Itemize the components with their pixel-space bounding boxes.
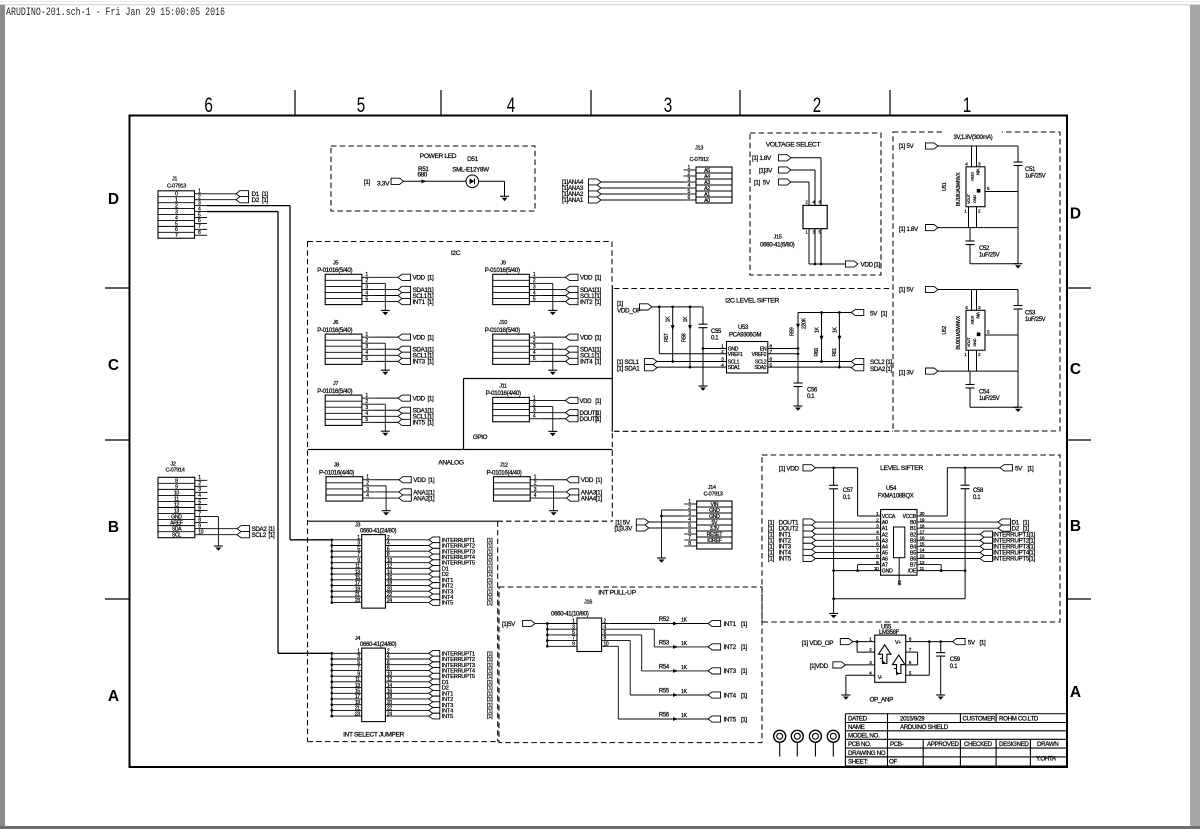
svg-text:BU30UA3WNVX: BU30UA3WNVX [956, 315, 962, 349]
svg-text:Y.OHTA: Y.OHTA [1036, 756, 1057, 763]
svg-text:J1: J1 [172, 177, 177, 183]
svg-text:VDD: VDD [413, 395, 426, 402]
svg-text:DRAWING NO: DRAWING NO [848, 750, 886, 757]
svg-text:VIN: VIN [976, 169, 981, 175]
svg-text:GND: GND [972, 195, 977, 203]
svg-text:A: A [1070, 684, 1081, 701]
svg-text:A: A [108, 688, 119, 705]
svg-text:VDD: VDD [861, 262, 874, 269]
svg-text:C-07914: C-07914 [165, 468, 184, 474]
svg-text:C-07912: C-07912 [689, 157, 708, 163]
svg-text:0.1: 0.1 [843, 495, 851, 501]
svg-text:[1]: [1] [741, 692, 748, 699]
svg-text:ROHM CO.LTD: ROHM CO.LTD [999, 716, 1039, 723]
svg-text:VOUT: VOUT [966, 337, 971, 348]
svg-text:SDA2: SDA2 [754, 365, 766, 371]
svg-text:[1]: [1] [487, 714, 493, 720]
svg-text:J7: J7 [333, 381, 338, 387]
svg-text:[1]: [1] [428, 495, 435, 502]
svg-text:STBY: STBY [970, 316, 975, 326]
svg-text:0660-41(24/80): 0660-41(24/80) [360, 642, 396, 648]
svg-text:ARUDINO-201.sch-1 - Fri Jan 29: ARUDINO-201.sch-1 - Fri Jan 29 15:00:05 … [6, 7, 225, 19]
svg-text:R61: R61 [832, 348, 838, 357]
svg-text:[1]: [1] [428, 395, 435, 402]
svg-text:INT5: INT5 [442, 601, 453, 607]
svg-text:1K: 1K [681, 618, 688, 624]
svg-text:23: 23 [355, 711, 360, 717]
svg-text:VDD: VDD [413, 334, 426, 341]
svg-text:5V: 5V [870, 310, 878, 317]
svg-text:24: 24 [387, 598, 392, 604]
svg-text:[1]: [1] [487, 601, 493, 607]
svg-text:0660-41(24/80): 0660-41(24/80) [360, 528, 396, 534]
svg-text:[1]3.3V: [1]3.3V [615, 525, 634, 532]
svg-text:VDD: VDD [413, 477, 426, 484]
svg-text:[1] 3V: [1] 3V [899, 370, 915, 377]
svg-text:SDA2: SDA2 [870, 366, 886, 373]
svg-text:[1]: [1] [428, 477, 435, 484]
svg-text:1K: 1K [832, 326, 838, 333]
svg-text:C-07913: C-07913 [167, 184, 186, 190]
svg-text:[1]: [1] [262, 197, 269, 204]
svg-text:PCB NO.: PCB NO. [848, 741, 872, 748]
svg-text:1uF/25V: 1uF/25V [1025, 317, 1046, 323]
svg-text:C51: C51 [1025, 167, 1036, 173]
svg-text:7: 7 [175, 233, 178, 239]
svg-text:SDA1: SDA1 [728, 365, 740, 371]
svg-text:U53: U53 [738, 325, 749, 331]
svg-text:VIN: VIN [976, 312, 981, 318]
svg-text:BU18UA3WNVX: BU18UA3WNVX [956, 172, 962, 206]
svg-text:APPROVED: APPROVED [927, 741, 959, 748]
svg-text:R57: R57 [664, 333, 670, 342]
svg-text:[1]: [1] [741, 668, 748, 675]
svg-text:ANA4: ANA4 [581, 495, 597, 502]
svg-text:1K: 1K [681, 665, 688, 671]
svg-text:SCL2: SCL2 [252, 532, 267, 539]
svg-text:I2C LEVEL SIFTER: I2C LEVEL SIFTER [725, 298, 779, 305]
svg-text:DATED: DATED [848, 716, 868, 723]
svg-text:DRAWN: DRAWN [1037, 741, 1058, 748]
svg-text:INT3: INT3 [724, 668, 737, 675]
svg-text:DESIGNED: DESIGNED [999, 741, 1029, 748]
svg-text:[1]3V: [1]3V [759, 167, 773, 174]
svg-text:21: 21 [897, 580, 903, 585]
svg-text:C: C [1070, 361, 1081, 378]
svg-text:D51: D51 [467, 156, 478, 163]
svg-text:2: 2 [813, 93, 822, 117]
svg-text:1: 1 [963, 93, 972, 117]
svg-text:J15: J15 [774, 234, 782, 240]
svg-text:VDD: VDD [580, 334, 593, 341]
svg-text:VDD: VDD [413, 275, 426, 282]
svg-text:SHEET:: SHEET: [848, 759, 868, 766]
svg-text:INT4: INT4 [724, 692, 737, 699]
svg-text:I2C: I2C [451, 250, 461, 257]
svg-text:VREF1: VREF1 [728, 352, 743, 358]
svg-text:5V: 5V [1015, 466, 1023, 473]
svg-text:[1]: [1] [595, 411, 601, 417]
svg-text:5V: 5V [968, 640, 976, 647]
svg-text:[1] SDA1: [1] SDA1 [617, 366, 640, 373]
svg-text:B: B [108, 519, 119, 536]
svg-text:1uF/25V: 1uF/25V [979, 396, 1000, 402]
svg-text:A0: A0 [704, 198, 710, 204]
svg-text:[1] 1.8V: [1] 1.8V [899, 226, 919, 233]
svg-text:[1]: [1] [596, 495, 603, 502]
svg-text:MODEL NO.: MODEL NO. [848, 732, 880, 739]
svg-text:C57: C57 [843, 488, 854, 494]
svg-text:INT2: INT2 [724, 644, 737, 651]
svg-text:0.1: 0.1 [973, 495, 981, 501]
svg-text:4: 4 [507, 93, 516, 117]
svg-text:R54: R54 [659, 665, 670, 671]
svg-text:/OE: /OE [908, 569, 917, 575]
svg-text:C: C [108, 357, 119, 374]
svg-text:VREF2: VREF2 [752, 352, 767, 358]
svg-text:[1]5V: [1]5V [502, 621, 516, 628]
svg-text:IOREF: IOREF [707, 538, 721, 544]
svg-text:FXMA108BQX: FXMA108BQX [878, 494, 914, 500]
svg-text:R56: R56 [659, 713, 670, 719]
svg-text:VDD: VDD [581, 477, 594, 484]
svg-text:C53: C53 [1025, 311, 1036, 317]
svg-text:23: 23 [355, 598, 360, 604]
svg-text:INT1: INT1 [413, 299, 426, 306]
svg-text:GND: GND [882, 569, 893, 575]
svg-text:[1]ANA1: [1]ANA1 [562, 197, 584, 204]
svg-text:SML-E12Y8W: SML-E12Y8W [452, 167, 489, 174]
svg-text:R55: R55 [659, 689, 670, 695]
svg-text:R60: R60 [814, 348, 820, 357]
svg-text:[1]: [1] [595, 334, 602, 341]
svg-text:R58: R58 [682, 333, 688, 342]
svg-text:1uF/25V: 1uF/25V [1025, 174, 1046, 180]
svg-text:VDD_OP: VDD_OP [617, 308, 641, 315]
svg-text:0.1: 0.1 [950, 664, 958, 670]
svg-text:R52: R52 [659, 617, 670, 623]
svg-text:220K: 220K [802, 317, 808, 329]
svg-text:C52: C52 [979, 246, 990, 252]
svg-text:10: 10 [604, 641, 609, 647]
svg-text:J5: J5 [333, 260, 338, 266]
svg-text:INT4: INT4 [580, 359, 593, 366]
svg-text:INTERRUPT5: INTERRUPT5 [993, 556, 1030, 563]
svg-text:VOLTAGE SELECT: VOLTAGE SELECT [766, 142, 821, 149]
svg-text:C54: C54 [979, 390, 990, 396]
svg-text:STBY: STBY [970, 172, 975, 182]
svg-text:V+: V+ [895, 640, 901, 646]
svg-text:U54: U54 [886, 486, 897, 492]
svg-text:P-01016(5/40): P-01016(5/40) [317, 388, 352, 395]
svg-text:[1]: [1] [269, 532, 276, 539]
svg-text:INT PULL-UP: INT PULL-UP [598, 590, 636, 597]
svg-text:1K: 1K [683, 316, 689, 323]
svg-text:3.3V: 3.3V [377, 181, 390, 188]
svg-text:C55: C55 [711, 329, 722, 335]
svg-text:1K: 1K [666, 316, 672, 323]
svg-text:INT5: INT5 [779, 556, 792, 563]
svg-text:P-01016(4/40): P-01016(4/40) [486, 390, 521, 397]
svg-text:VDD: VDD [580, 275, 593, 282]
svg-text:[1]: [1] [595, 299, 602, 306]
svg-text:1K: 1K [681, 641, 688, 647]
svg-text:[1]: [1] [617, 301, 624, 308]
svg-text:INT5: INT5 [442, 714, 453, 720]
svg-text:0660-41(6/80): 0660-41(6/80) [760, 241, 795, 248]
svg-text:[1] 5V: [1] 5V [899, 143, 915, 150]
svg-text:J9: J9 [500, 260, 505, 266]
svg-text:2015/9/29: 2015/9/29 [900, 716, 925, 723]
svg-text:INT3: INT3 [413, 359, 426, 366]
svg-text:J12: J12 [500, 463, 508, 469]
svg-text:D: D [108, 191, 119, 208]
svg-text:J13: J13 [695, 146, 703, 152]
svg-text:J14: J14 [708, 485, 716, 491]
svg-text:CUSTOMER: CUSTOMER [963, 716, 996, 723]
svg-text:POWER LED: POWER LED [420, 153, 457, 160]
svg-text:[1]: [1] [980, 640, 987, 647]
svg-text:[1]: [1] [874, 262, 881, 269]
svg-text:CHECKED: CHECKED [964, 741, 993, 748]
svg-text:P-01016(5/40): P-01016(5/40) [317, 327, 352, 334]
svg-text:PCB-: PCB- [890, 741, 904, 748]
svg-text:U51: U51 [942, 182, 948, 191]
svg-text:[1]: [1] [1028, 466, 1035, 473]
svg-text:SCL: SCL [172, 533, 182, 539]
svg-text:5: 5 [357, 93, 366, 117]
svg-text:[1]: [1] [886, 366, 893, 373]
svg-text:[1] 5V: [1] 5V [899, 287, 915, 294]
svg-text:C-07913: C-07913 [703, 492, 722, 498]
svg-text:ANA2: ANA2 [413, 495, 429, 502]
svg-text:J6: J6 [333, 320, 338, 326]
svg-text:[1]: [1] [595, 399, 601, 405]
svg-text:C58: C58 [973, 488, 984, 494]
svg-text:1K: 1K [815, 326, 821, 333]
svg-text:INT2: INT2 [580, 299, 593, 306]
svg-text:OF: OF [889, 759, 897, 766]
svg-text:[1]: [1] [428, 299, 435, 306]
svg-text:[1]: [1] [1029, 556, 1036, 563]
svg-text:D2: D2 [252, 197, 260, 204]
svg-text:INT SELECT JUMPER: INT SELECT JUMPER [343, 732, 404, 739]
svg-text:GPIO: GPIO [473, 434, 488, 441]
svg-text:U52: U52 [942, 326, 948, 335]
svg-text:0.1: 0.1 [711, 336, 719, 342]
svg-text:P-01016(5/40): P-01016(5/40) [317, 267, 352, 274]
svg-text:J8: J8 [334, 463, 339, 469]
svg-text:[1]: [1] [595, 275, 602, 282]
svg-text:R59: R59 [790, 327, 796, 336]
svg-text:[1]VDD: [1]VDD [810, 663, 829, 670]
svg-text:P-01016(5/40): P-01016(5/40) [485, 267, 520, 274]
svg-text:[1]: [1] [881, 310, 888, 317]
svg-text:LEVEL SIFTER: LEVEL SIFTER [880, 465, 923, 472]
svg-text:J16: J16 [584, 600, 592, 606]
svg-text:[1] 5V: [1] 5V [754, 179, 771, 186]
svg-text:D: D [1070, 206, 1081, 223]
svg-text:C59: C59 [950, 657, 961, 663]
svg-text:[1] 1.8V: [1] 1.8V [752, 155, 772, 162]
svg-text:[1]: [1] [428, 420, 435, 427]
svg-text:INT5: INT5 [724, 716, 737, 723]
svg-text:ARDUINO SHIELD: ARDUINO SHIELD [900, 724, 949, 731]
svg-text:10: 10 [198, 529, 203, 535]
svg-text:1uF/25V: 1uF/25V [979, 253, 1000, 259]
svg-text:P-01016(4/40): P-01016(4/40) [487, 470, 522, 477]
svg-text:OP_ANP: OP_ANP [870, 697, 894, 704]
svg-text:R53: R53 [659, 641, 670, 647]
svg-text:C56: C56 [807, 388, 818, 394]
svg-text:VDD: VDD [580, 399, 593, 405]
svg-text:J10: J10 [499, 320, 507, 326]
svg-text:[1]: [1] [428, 334, 435, 341]
svg-text:ANALOG: ANALOG [438, 460, 464, 467]
svg-text:J11: J11 [499, 383, 507, 389]
svg-text:GND: GND [972, 338, 977, 346]
svg-text:INT5: INT5 [413, 420, 426, 427]
svg-text:[1]: [1] [768, 556, 775, 563]
svg-text:[1] VDD_OP: [1] VDD_OP [802, 640, 833, 647]
svg-text:[1]: [1] [428, 275, 435, 282]
svg-text:0.1: 0.1 [807, 394, 815, 400]
svg-text:[1]: [1] [428, 359, 435, 366]
svg-text:1K: 1K [681, 713, 688, 719]
svg-text:[1]: [1] [741, 621, 748, 628]
svg-text:P-01016(4/40): P-01016(4/40) [319, 470, 354, 477]
svg-text:[1]: [1] [741, 644, 748, 651]
svg-text:P-01016(5/40): P-01016(5/40) [485, 327, 520, 334]
svg-text:VOUT: VOUT [966, 193, 971, 204]
svg-text:NAME: NAME [848, 724, 865, 731]
svg-text:[1]: [1] [741, 716, 748, 723]
svg-text:0660-41(10/80): 0660-41(10/80) [551, 611, 589, 618]
svg-text:3: 3 [664, 93, 673, 117]
svg-text:[1]: [1] [364, 179, 371, 186]
svg-text:V-: V- [878, 675, 883, 681]
svg-text:1K: 1K [681, 689, 688, 695]
svg-text:6: 6 [204, 93, 213, 117]
svg-text:INT1: INT1 [724, 621, 737, 628]
svg-text:3V,1.8V(300mA): 3V,1.8V(300mA) [954, 135, 993, 141]
svg-text:[1]: [1] [595, 417, 601, 423]
svg-text:[1] VDD: [1] VDD [779, 465, 799, 472]
svg-text:[1]: [1] [595, 359, 602, 366]
svg-text:B: B [1070, 518, 1081, 535]
svg-text:PCA9306GM: PCA9306GM [729, 333, 762, 339]
svg-text:[1]: [1] [596, 477, 603, 484]
svg-text:24: 24 [387, 711, 392, 717]
svg-text:680: 680 [418, 172, 428, 179]
